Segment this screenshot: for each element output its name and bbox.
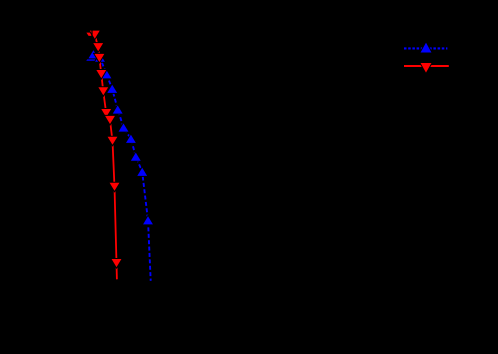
red marker r8 bbox=[104, 115, 116, 125]
blue marker b3 bbox=[101, 69, 113, 79]
legend red solid line bbox=[404, 65, 449, 67]
blue marker b8 bbox=[130, 152, 142, 162]
legend blue dashed line bbox=[404, 47, 447, 49]
red marker r4 bbox=[94, 53, 106, 63]
red marker r6 bbox=[98, 87, 110, 97]
blue marker b0 (mostly hidden behind b1) bbox=[85, 52, 97, 62]
black errorbar slit over top cluster bbox=[91, 29, 92, 41]
red marker r1 bbox=[89, 30, 101, 40]
red marker r2 (behind r1) bbox=[86, 33, 91, 36]
blue marker b5 bbox=[112, 105, 124, 115]
red marker r3 bbox=[92, 43, 104, 53]
red marker r9 bbox=[107, 136, 119, 146]
blue marker b10 bbox=[142, 215, 154, 225]
red solid curve line bbox=[95, 35, 117, 279]
blue marker b9 bbox=[136, 167, 148, 177]
red marker r11 bbox=[111, 259, 123, 269]
legend red marker bbox=[420, 63, 433, 74]
legend blue marker bbox=[420, 42, 433, 53]
blue marker b2 bbox=[94, 53, 106, 63]
blue marker b4 bbox=[106, 84, 118, 94]
red marker r5 bbox=[96, 70, 108, 80]
red marker r10 bbox=[109, 182, 121, 192]
blue dashed curve line bbox=[93, 54, 150, 280]
blue marker b1 bbox=[88, 49, 100, 59]
blue marker b6 bbox=[118, 123, 130, 133]
blue marker b7 bbox=[125, 134, 137, 144]
red marker r7 bbox=[100, 109, 112, 119]
